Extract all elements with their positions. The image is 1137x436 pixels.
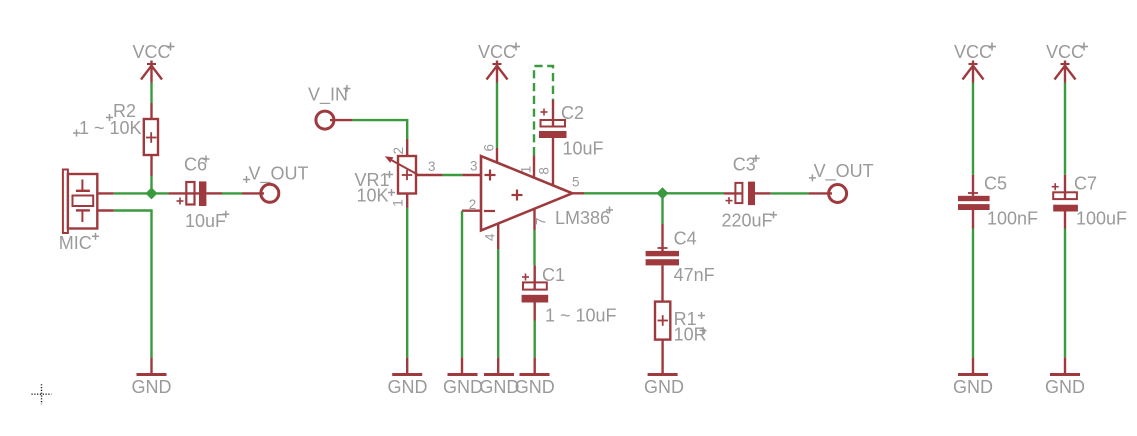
- ground (VR1): [388, 357, 428, 397]
- svg-text:100uF: 100uF: [1076, 209, 1127, 229]
- wire VCC to C5: [972, 83, 974, 175]
- ground (C5): [953, 357, 993, 397]
- wire (dashed) op-amp pin 1 to C2: [534, 66, 553, 155]
- svg-text:V_OUT: V_OUT: [814, 161, 874, 182]
- svg-text:C3: C3: [733, 155, 756, 175]
- capacitor C3 220uF: [722, 155, 778, 231]
- svg-text:3: 3: [470, 159, 478, 174]
- svg-text:7: 7: [534, 218, 549, 226]
- ground (left): [132, 357, 172, 397]
- wire VR1 bottom to GND: [406, 208, 408, 358]
- svg-text:10K: 10K: [357, 186, 389, 206]
- svg-text:3: 3: [428, 159, 436, 174]
- svg-text:GND: GND: [1045, 377, 1085, 397]
- wire VCC to C7: [1064, 83, 1066, 175]
- svg-text:100nF: 100nF: [987, 209, 1038, 229]
- svg-text:2: 2: [391, 147, 406, 155]
- port V_OUT (left): [242, 164, 309, 203]
- svg-text:GND: GND: [953, 377, 993, 397]
- svg-text:V_IN: V_IN: [308, 85, 348, 106]
- wire VR1 wiper to op-amp pin 3: [443, 174, 463, 176]
- VCC supply (C5 branch): [954, 42, 996, 83]
- VCC supply (left, over R2): [132, 42, 174, 83]
- wire R2 to node: [150, 176, 152, 193]
- svg-text:1: 1: [519, 166, 534, 174]
- svg-text:LM386: LM386: [555, 208, 610, 228]
- svg-text:2: 2: [469, 197, 477, 212]
- svg-text:VCC: VCC: [132, 42, 170, 62]
- svg-text:VCC: VCC: [478, 42, 516, 62]
- svg-text:GND: GND: [479, 377, 519, 397]
- svg-text:4: 4: [483, 233, 498, 241]
- wire op-amp pin 7 to C1: [533, 230, 535, 265]
- svg-text:10uF: 10uF: [563, 139, 604, 159]
- capacitor C6 10uF: [168, 155, 229, 232]
- ground (C7): [1045, 357, 1085, 397]
- junction node (mic/R2/C6): [146, 187, 158, 199]
- svg-text:GND: GND: [515, 377, 555, 397]
- resistor R1 10R: [655, 302, 707, 375]
- wire VCC to op-amp pin 6: [496, 83, 498, 149]
- svg-text:C6: C6: [184, 155, 207, 175]
- capacitor C1 1~10uF: [522, 265, 617, 326]
- capacitor C4 47nF: [646, 224, 715, 302]
- ground (op-amp pin 2): [443, 357, 483, 397]
- svg-text:C5: C5: [984, 174, 1007, 194]
- svg-text:VCC: VCC: [1046, 42, 1084, 62]
- port V_IN: [308, 85, 352, 130]
- capacitor C5 100nF: [958, 174, 1038, 229]
- microphone MIC: [59, 170, 114, 254]
- svg-text:1: 1: [391, 199, 406, 207]
- svg-text:C7: C7: [1074, 174, 1097, 194]
- ground (R1): [644, 375, 684, 398]
- svg-text:10uF: 10uF: [185, 211, 226, 231]
- wire C7 to GND: [1064, 229, 1066, 358]
- wire output node to C3: [663, 192, 725, 194]
- svg-text:5: 5: [572, 174, 580, 189]
- svg-text:10R: 10R: [674, 325, 707, 345]
- wire VCC to R2: [150, 83, 152, 104]
- wire node to C6: [152, 192, 169, 194]
- wire MIC bottom pin to GND: [114, 211, 152, 358]
- junction node (output): [657, 187, 669, 199]
- svg-text:47nF: 47nF: [674, 265, 715, 285]
- wire C5 to GND: [972, 229, 974, 358]
- wire MIC top pin to node: [114, 192, 152, 194]
- wire C6 to V_OUT port: [222, 192, 242, 194]
- wire C1 to GND: [534, 321, 536, 358]
- potentiometer VR1 10K: [355, 139, 443, 208]
- capacitor C2 10uF: [539, 100, 604, 159]
- capacitor C7 100uF: [1052, 174, 1127, 229]
- VCC supply (op-amp pin 6): [478, 42, 520, 83]
- svg-text:220uF: 220uF: [722, 211, 773, 231]
- ground (op-amp pin 4): [479, 357, 519, 397]
- port V_OUT (right): [809, 161, 874, 203]
- resistor R2: [73, 101, 158, 176]
- VCC supply (C7 branch): [1046, 42, 1088, 83]
- wire op-amp pin 2 to GND: [461, 211, 463, 358]
- svg-text:1 ~ 10uF: 1 ~ 10uF: [545, 306, 617, 326]
- wire V_IN to VR1 top: [352, 120, 407, 139]
- svg-text:MIC: MIC: [59, 233, 92, 253]
- svg-text:GND: GND: [388, 377, 428, 397]
- ground (C1 / op-amp pin 7): [515, 357, 555, 397]
- op-amp U1 LM386: [462, 138, 613, 249]
- svg-text:V_OUT: V_OUT: [249, 164, 309, 185]
- svg-text:GND: GND: [644, 377, 684, 397]
- svg-text:GND: GND: [132, 377, 172, 397]
- svg-text:6: 6: [482, 144, 497, 152]
- wire op-amp pin 5 to output node: [584, 192, 663, 194]
- svg-text:8: 8: [537, 167, 552, 175]
- svg-text:1 ~ 10K: 1 ~ 10K: [79, 118, 142, 138]
- wire output node down to C4: [661, 193, 663, 224]
- svg-text:C4: C4: [674, 229, 697, 249]
- svg-text:VCC: VCC: [954, 42, 992, 62]
- wire op-amp pin 4 to GND: [497, 249, 499, 357]
- svg-text:GND: GND: [443, 377, 483, 397]
- sheet origin cross: [32, 384, 52, 404]
- wire C3 to V_OUT port: [771, 192, 809, 194]
